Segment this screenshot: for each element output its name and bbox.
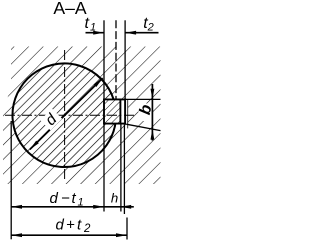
keyway + clearance white area <box>103 99 128 125</box>
d-t1 arrowhead left <box>11 205 22 209</box>
thin vertical right of hub groove <box>127 99 129 128</box>
extension line x=116 dashed (shaft surface) <box>115 20 117 98</box>
t2 dimension line <box>125 32 158 34</box>
key cross-section hatch <box>104 99 120 123</box>
d dimension line (45 deg) + arrows <box>30 78 103 149</box>
h arrowhead <box>120 205 131 209</box>
t1 dimension line <box>86 32 105 34</box>
t2 arrowhead <box>125 31 136 35</box>
extension line x=104 (top) <box>103 20 105 98</box>
d+t2 arrowhead left <box>11 233 22 237</box>
extension line x=104 (bottom) <box>103 124 105 211</box>
b arrowhead top <box>151 89 155 100</box>
extension line x=120.4 (bottom) <box>120 124 122 211</box>
d+t2 arrowhead right <box>116 233 127 237</box>
keyway groove top wall <box>103 98 126 100</box>
d-t1 arrowhead right <box>93 205 104 209</box>
hub hatched section field <box>3 47 161 185</box>
t1 arrowhead <box>93 31 104 35</box>
shaft groove bottom (key left edge) <box>103 99 105 125</box>
shaft circle outline with gap at keyway <box>12 63 115 167</box>
h dimension (tail + outside arrow) <box>104 206 134 208</box>
d arrowhead lower-left <box>30 141 39 150</box>
b bottom oblique seat line <box>126 124 160 130</box>
d-t1 dimension line <box>11 206 104 208</box>
svg-text:A–A: A–A <box>53 0 87 18</box>
extension line stub x=127 (lower, d+t2) <box>126 218 128 240</box>
extension line x=125.1 (bottom) <box>123 125 125 214</box>
extension line left x=11.2 <box>10 121 12 239</box>
hub groove bottom <box>124 99 126 125</box>
centerline vertical <box>64 50 66 181</box>
key outer face <box>119 99 121 125</box>
svg-text:h: h <box>111 191 118 206</box>
b arrowhead bottom <box>151 129 155 140</box>
centerline horizontal <box>5 114 134 116</box>
d arrowhead upper-right <box>94 78 103 87</box>
b top seat line <box>121 98 161 100</box>
shaft circle fill (section hatch) <box>13 64 117 168</box>
extension line x=125.1 (top) <box>124 20 126 98</box>
d label knockout <box>40 108 62 130</box>
b label knockout <box>139 104 152 122</box>
keyway groove bottom wall <box>103 123 126 125</box>
d+t2 dimension line <box>11 234 127 236</box>
b dimension line + arrows <box>151 84 153 141</box>
